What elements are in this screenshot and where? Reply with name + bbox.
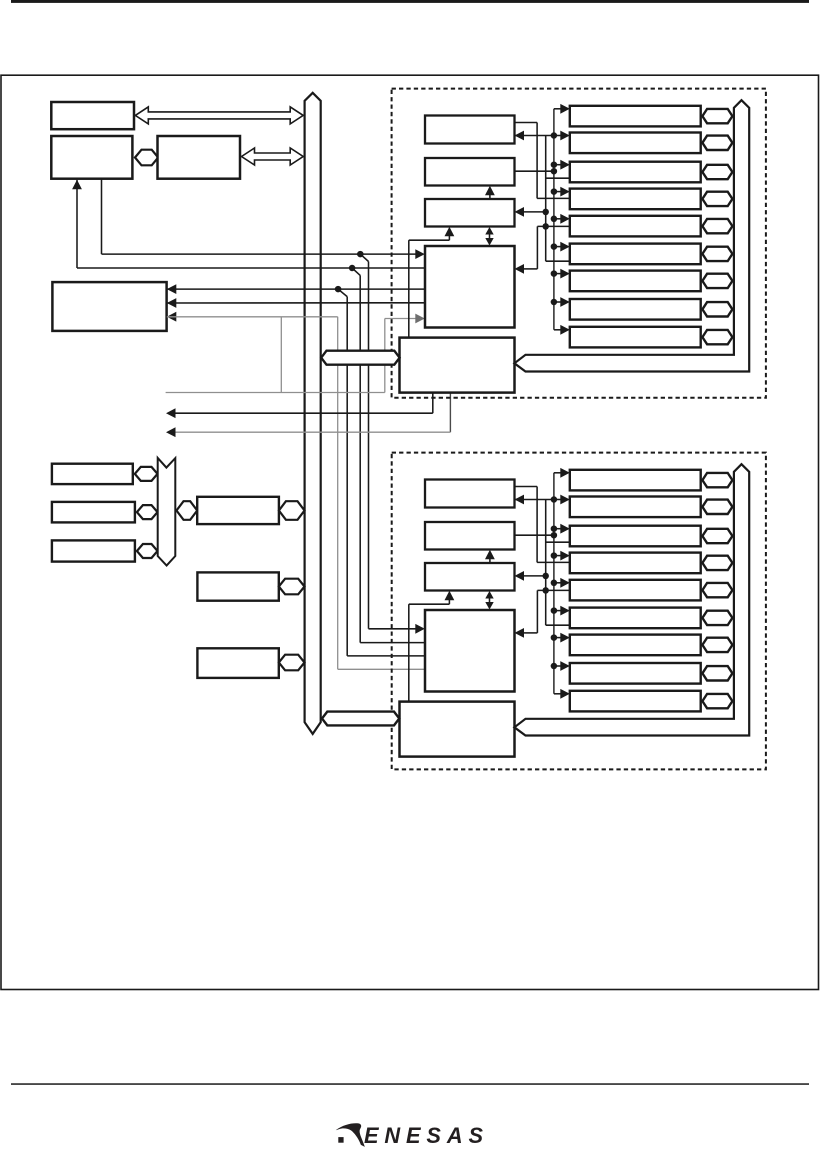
junction register 5 <box>551 216 558 223</box>
connector hexagon register 6 <box>702 247 732 261</box>
register 4 <box>570 553 701 574</box>
register 6 <box>570 244 701 265</box>
wire L5 branch (gray) down to TX wire <box>280 317 282 393</box>
page footer rule <box>11 1083 809 1085</box>
wire to register 1 <box>554 472 562 474</box>
junction register 2 <box>551 132 558 139</box>
wire to register 1 <box>554 108 562 110</box>
wire to register 6 <box>554 246 562 248</box>
connector hexagon register 9 <box>702 330 732 344</box>
wire to register 9 <box>554 693 562 695</box>
block D (lower-left control block) <box>52 282 166 331</box>
connector hexagon register 3 <box>702 165 732 179</box>
junction register 8 <box>551 299 558 306</box>
wire V2 register 3 / G / register 6 <box>545 500 547 626</box>
wire E-out to register 4 <box>515 486 538 488</box>
register 1 <box>570 106 701 127</box>
register 1 <box>570 470 701 491</box>
wire arrow G to F <box>489 556 491 563</box>
wire V2 register 3 / G / register 6 <box>545 136 547 262</box>
block C <box>158 136 241 179</box>
bus bridge arrow to upper module <box>321 351 399 365</box>
connector hexagon L <box>279 655 305 671</box>
junction register 3 <box>551 161 558 168</box>
register 7 <box>570 271 701 292</box>
outer diagram frame <box>1 75 819 989</box>
junction F-trunk <box>551 168 558 175</box>
module data bus with arrow into bus interface <box>514 464 749 735</box>
register 3 <box>570 162 701 183</box>
control block H <box>425 610 515 692</box>
wire OUT1 from upper bus interface <box>432 393 434 414</box>
junction V2-reg5line <box>542 223 549 230</box>
lower serial communication module <box>400 464 750 756</box>
connector hexagon register 8 <box>702 302 732 316</box>
upper serial communication module <box>400 100 750 392</box>
connector hexagon register 3 <box>702 529 732 543</box>
junction F-trunk <box>551 532 558 539</box>
junction register 2 <box>551 496 558 503</box>
serial module sub-blocks <box>400 464 750 756</box>
register 6 <box>570 608 701 629</box>
block L <box>197 648 278 678</box>
wire to register 8 <box>554 301 562 303</box>
connector hexagon register 8 <box>702 666 732 680</box>
wire to register 4 <box>554 555 562 557</box>
connector hexagon J-left <box>177 501 198 520</box>
junction V2-G <box>542 573 549 580</box>
junction register 8 <box>551 663 558 670</box>
wire register 5 to control H <box>537 589 569 591</box>
register 2 <box>570 133 701 154</box>
connector hexagon LB <box>137 505 158 519</box>
block F <box>425 522 515 550</box>
dashed boundary upper module <box>392 89 766 398</box>
connector hexagon register 2 <box>702 500 732 514</box>
wire F-out to trunk <box>515 534 554 536</box>
register 2 <box>570 497 701 518</box>
connector hexagon register 1 <box>702 473 732 487</box>
wire to register 8 <box>554 665 562 667</box>
block B (left, second row) <box>51 136 132 179</box>
wire L2: block B to control H (both modules) <box>72 180 82 190</box>
block K <box>197 572 278 600</box>
register 5 <box>570 580 701 601</box>
module data bus with arrow into bus interface <box>514 100 749 371</box>
junction register 5 <box>551 580 558 587</box>
wire L1: block B to control H (both modules) <box>101 179 103 254</box>
wire trunk (register select) <box>553 473 555 694</box>
wire bus interface to G <box>408 240 410 337</box>
main internal data bus <box>305 93 321 734</box>
connector hexagon J-right <box>279 501 305 520</box>
left register box LC <box>52 540 135 561</box>
wire E-out to register 4 <box>515 122 538 124</box>
wire to register 4 <box>554 191 562 193</box>
Renesas logo <box>336 1123 484 1148</box>
connector hexagon register 4 <box>702 556 732 570</box>
control block H <box>425 246 515 328</box>
junction V2-reg5line <box>542 587 549 594</box>
block G <box>425 199 515 227</box>
wire to register 5 <box>554 218 562 220</box>
wire arrow G to F <box>489 192 491 199</box>
wire to register 9 <box>554 329 562 331</box>
connector hexagon register 1 <box>702 109 732 123</box>
junction register 4 <box>551 552 558 559</box>
connector hexagon register 4 <box>702 192 732 206</box>
connector hexagon register 5 <box>702 219 732 233</box>
wire to register 3 <box>554 164 562 166</box>
wire to register 3 <box>554 528 562 530</box>
connector hexagon register 7 <box>702 638 732 652</box>
wire L5 (gray): block D to both control H blocks <box>167 312 177 322</box>
connector hexagon register 7 <box>702 274 732 288</box>
wire to register 7 <box>554 273 562 275</box>
wire trunk (register select) <box>553 109 555 330</box>
wire bus interface to G <box>408 604 410 701</box>
connector hexagon register 2 <box>702 136 732 150</box>
block A (top-left) <box>51 102 134 129</box>
connector hexagon register 6 <box>702 611 732 625</box>
left register box LA <box>52 464 133 484</box>
wire to register 6 <box>554 610 562 612</box>
register 9 <box>570 327 701 348</box>
register 8 <box>570 299 701 320</box>
wire F-out to trunk <box>515 170 554 172</box>
left register box LB <box>52 502 135 523</box>
wire to register 5 <box>554 582 562 584</box>
serial module sub-blocks <box>400 100 750 392</box>
junction register 3 <box>551 525 558 532</box>
junction register 4 <box>551 188 558 195</box>
register 9 <box>570 691 701 712</box>
wire to register 7 <box>554 637 562 639</box>
register 8 <box>570 663 701 684</box>
wire TX (gray) to upper control H <box>166 392 385 394</box>
page header rule <box>11 0 809 3</box>
connector hexagon K <box>279 579 305 595</box>
bus interface block I <box>400 702 515 757</box>
block E <box>425 116 515 144</box>
junction register 7 <box>551 634 558 641</box>
wire OUT2 (gray) from upper bus interface <box>449 393 451 433</box>
wire double arrow G-H <box>489 597 491 604</box>
connector hexagon LC <box>137 544 158 558</box>
bus width adapter banner <box>158 458 176 566</box>
connector hexagon register 9 <box>702 694 732 708</box>
block G <box>425 563 515 591</box>
bidirectional bus arrow C to internal bus <box>242 148 304 165</box>
bus bridge arrow to lower module <box>322 712 399 726</box>
wire L4: upper control H to block D <box>167 298 177 308</box>
connector hexagon register 5 <box>702 583 732 597</box>
wire arrow into block G <box>521 575 546 577</box>
wire arrow into block E <box>515 131 525 141</box>
junction register 6 <box>551 607 558 614</box>
block F <box>425 158 515 186</box>
register 3 <box>570 526 701 547</box>
wire to register 2 <box>554 499 562 501</box>
block J <box>197 497 279 524</box>
wire arrow into block E <box>515 495 525 505</box>
bus interface block I <box>400 338 515 393</box>
junction V2-G <box>542 209 549 216</box>
connector hexagon B-C <box>135 150 158 166</box>
svg-text:ENESAS: ENESAS <box>364 1123 484 1148</box>
junction register 7 <box>551 270 558 277</box>
register 7 <box>570 635 701 656</box>
register 5 <box>570 216 701 237</box>
wire to register 2 <box>554 135 562 137</box>
junction register 6 <box>551 243 558 250</box>
wire arrow into block G <box>521 211 546 213</box>
block E <box>425 480 515 508</box>
bidirectional bus arrow A to internal bus <box>135 107 303 124</box>
wire register 5 to control H <box>537 225 569 227</box>
wire double arrow G-H <box>489 233 491 240</box>
connector hexagon LA <box>135 467 158 481</box>
register 4 <box>570 189 701 210</box>
dashed boundary lower module <box>392 453 766 770</box>
wire L3: control H to block D (both modules) <box>167 284 177 294</box>
